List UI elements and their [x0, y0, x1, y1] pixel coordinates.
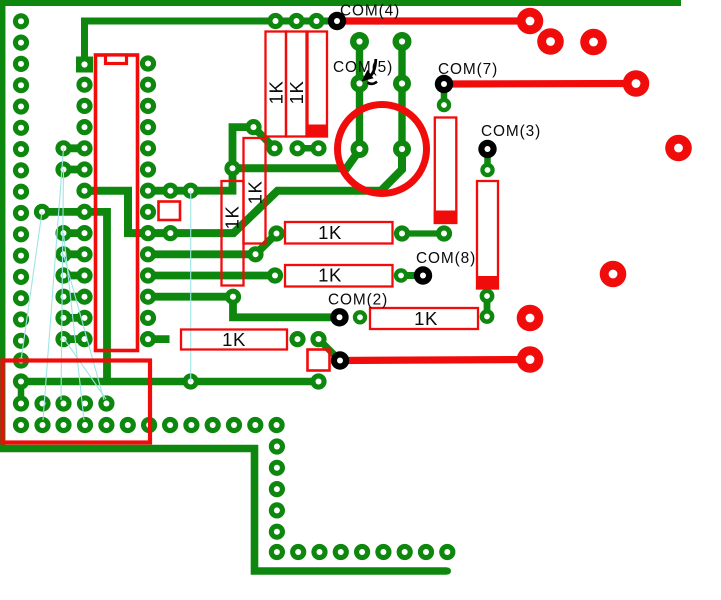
- resistor right pads: [394, 225, 452, 282]
- svg-text:1K: 1K: [221, 206, 242, 230]
- wire pin row297 to COM(2): [148, 297, 340, 318]
- wire row210 bar: [42, 208, 85, 216]
- wire dumbbell bar: [64, 166, 85, 174]
- IC U1 left pin pads: [76, 57, 93, 434]
- wire node column right: [398, 42, 405, 150]
- resistor R8 outline: [370, 308, 478, 329]
- R7 pads: [289, 310, 367, 347]
- wire dumbbell bar: [64, 272, 85, 280]
- top resistor top pads: [267, 13, 324, 29]
- svg-text:COM(8): COM(8): [416, 250, 476, 267]
- wire net1 pin1 to COM(4): [85, 21, 337, 64]
- wire board border top: [0, 0, 681, 6]
- resistor R_t3 outline: [308, 32, 328, 137]
- ratsnest lines: [21, 148, 191, 420]
- resistor R1 outline: [222, 181, 244, 286]
- bottom row425 pads right part: [162, 417, 285, 433]
- wire pin row275: [148, 272, 275, 280]
- wire COM(5) column: [356, 42, 363, 150]
- component K1 outline: [3, 361, 151, 443]
- wire board border left: [0, 0, 5, 452]
- wire pin row339 bar: [148, 335, 170, 343]
- red square pad S1: [159, 202, 181, 221]
- wire diagonal R2top-R_t1bot: [254, 127, 275, 148]
- wire dumbbell bar: [64, 314, 85, 322]
- highlight circle: [338, 105, 427, 194]
- svg-text:COM(4): COM(4): [340, 3, 400, 20]
- resistor R6 outline: [285, 265, 393, 287]
- wire long net pin8: [85, 149, 403, 233]
- wire V2 bottom bar: [484, 296, 491, 317]
- IC U1 outline: [96, 55, 138, 351]
- svg-text:COM(3): COM(3): [481, 123, 541, 140]
- IC U1 notch: [106, 55, 127, 64]
- connector left header pads: [13, 13, 29, 433]
- mid trace pads: [162, 183, 284, 305]
- wire COM(7) stub: [441, 84, 448, 105]
- red square pad S2: [308, 350, 330, 371]
- resistor R7 outline: [181, 330, 287, 350]
- svg-text:1K: 1K: [414, 308, 438, 329]
- wire dumbbell bar: [64, 335, 85, 343]
- svg-text:COM(5): COM(5): [333, 59, 393, 76]
- wire COM(2) red trace: [340, 360, 530, 361]
- wire dumbbell bar: [64, 144, 85, 152]
- wire pad232 to pad360 diagonal: [233, 150, 360, 168]
- annotation arrow COM(5): [371, 59, 376, 76]
- wire COM(7) red trace: [444, 80, 636, 88]
- wire pin row254: [148, 234, 277, 255]
- svg-text:1K: 1K: [265, 81, 286, 105]
- IC U1 right pin pads: [140, 55, 157, 433]
- mid pads under resistors: [224, 119, 326, 176]
- wire bottom horizontal net: [21, 378, 319, 385]
- svg-text:1K: 1K: [244, 181, 265, 205]
- wire dumbbell bar: [64, 293, 85, 301]
- wire teardrop: [18, 382, 25, 404]
- pads column x63: [55, 140, 71, 433]
- pads column x42: [34, 204, 51, 433]
- wire dumbbell bar: [64, 250, 85, 258]
- wire R2 top to pin rows: [148, 127, 254, 191]
- resistor R_t1 outline: [266, 32, 287, 137]
- resistor V1 outline: [435, 118, 457, 224]
- wire COM(4) red trace: [336, 17, 530, 24]
- resistor R2 outline: [244, 138, 266, 244]
- wire pin9 inner vertical: [85, 212, 108, 383]
- COM stub pads: [437, 98, 495, 324]
- wire COM(3) stub: [484, 149, 491, 170]
- wire R5 right bar: [402, 230, 444, 236]
- svg-text:COM(2): COM(2): [328, 292, 388, 309]
- wire dumbbell bar: [64, 229, 85, 237]
- svg-text:1K: 1K: [286, 81, 307, 105]
- resistor V2 outline: [477, 181, 498, 289]
- wire COM(2) diag: [319, 339, 341, 360]
- bottom net pads: [183, 373, 327, 389]
- black COM pads: [328, 12, 497, 370]
- svg-text:1K: 1K: [318, 222, 342, 243]
- wire R_t2-R_t3 bottom bar: [298, 145, 319, 152]
- resistor R_t2 outline: [286, 32, 307, 137]
- resistor R5 outline: [285, 222, 393, 244]
- red via pads: [517, 8, 692, 373]
- pads in circle columns: [350, 32, 412, 158]
- svg-text:1K: 1K: [222, 329, 246, 350]
- svg-text:COM(7): COM(7): [438, 61, 498, 78]
- wire R6 right bar: [401, 272, 423, 279]
- svg-text:1K: 1K: [318, 265, 342, 286]
- wire bottom big trace: [0, 449, 447, 572]
- connector bottom-L pads: [269, 438, 456, 560]
- pads column x106-x128: [98, 395, 136, 433]
